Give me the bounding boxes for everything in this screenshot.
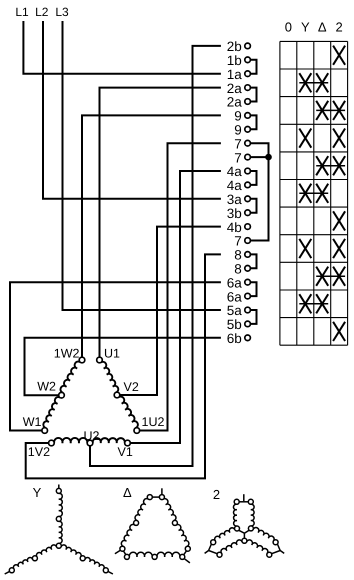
terminal 4b (row 14) [227,220,251,235]
contact row 5 closed in Δ+2 [316,156,345,175]
diagram D node top-right [159,495,164,500]
svg-text:5a: 5a [227,303,243,318]
diagram 2 coil loop-left [233,504,237,526]
svg-text:5b: 5b [227,317,242,332]
label 1U2 [142,415,165,429]
link terminals 9-9 [250,115,256,129]
terminal 8 (row 17) [234,262,250,277]
table header 2 [335,19,342,34]
svg-text:6b: 6b [227,331,242,346]
label W2 [37,380,56,394]
terminal 1a (row 3) [227,67,251,82]
terminal 6b (row 22) [227,331,251,346]
svg-text:7: 7 [234,234,242,249]
diagram 2 coil left-upper [215,528,235,541]
diagram 2 node right-lower-end [267,552,272,557]
node V2 [114,392,120,398]
diagram 2 label [213,487,220,502]
diagram D coil bottom-left [129,552,152,557]
svg-text:1W2: 1W2 [54,347,80,361]
terminal 2a (row 4) [227,81,251,96]
supply label L3 [55,5,69,19]
diagram D node bottom-mid [152,554,157,559]
label 1V2 [28,445,50,459]
terminal 2a (row 5) [227,95,251,110]
diagram D top link [152,496,159,498]
diagram 2 join right [272,544,281,554]
diagram Y node right end [103,568,108,573]
wire terminal 7 to node 1U2 [140,143,221,430]
node U2 [87,440,93,446]
diagram Y right stub [108,571,113,574]
diagram D stub bottom-right [184,559,190,563]
contact row 6 closed in Y+Δ [299,184,328,203]
contact row 10 closed in Y+Δ [299,294,328,313]
diagram D label [123,485,132,500]
diagram Y coil leftnode-leftend [13,557,32,569]
node 1U2 [134,428,140,434]
winding coil V2-1U2 [118,397,138,428]
terminal 8 (row 16) [234,248,250,263]
contact row 7 closed in 2 [333,211,345,230]
contact row 4 closed in Y+2 [299,129,345,148]
link terminals 6a-6a [250,282,256,296]
node V1 [125,440,131,446]
diagram D coil bottom-right [157,552,180,557]
link terminals 1b-1a [250,60,256,74]
diagram 2 node left-lower-end [217,552,222,557]
svg-text:6a: 6a [227,275,243,290]
diagram 2 node left-upper-end [211,540,216,545]
wire terminal 2a to node U1 [100,88,221,358]
diagram D node left-end [120,546,125,551]
svg-text:U2: U2 [84,429,100,443]
diagram D coil left-lower [121,524,135,546]
diagram 2 node loop-bottom-right [248,526,253,531]
svg-text:Y: Y [301,19,310,34]
svg-text:4a: 4a [227,164,243,179]
diagram D node left-mid [134,520,139,525]
svg-text:8: 8 [234,262,242,277]
diagram Y label [33,485,42,500]
contact row 11 closed in 2 [333,322,345,341]
terminal 5a (row 20) [227,303,251,318]
svg-text:8: 8 [234,248,242,263]
label V2 [124,380,139,394]
svg-text:Δ: Δ [318,19,327,34]
terminal 3a (row 12) [227,192,251,207]
svg-text:2: 2 [335,19,342,34]
diagram D node right-mid [172,520,177,525]
diagram 2 junction lines [239,530,249,538]
svg-text:2a: 2a [227,95,243,110]
contact row 2 closed in Y+Δ [299,73,328,92]
link terminals 2a-2a [250,88,256,102]
svg-text:W2: W2 [37,380,56,394]
diagram 2 node right-upper-end [273,540,278,545]
supply label L2 [35,5,49,19]
svg-text:9: 9 [234,123,242,138]
supply label L1 [15,5,29,19]
diagram Y node right node [80,556,85,561]
diagram Y coil center-leftnode [36,545,56,557]
label U1 [104,347,120,361]
table header Y [301,19,310,34]
diagram D coil left-upper [135,499,149,521]
terminal 7 (row 8) [234,136,250,151]
diagram 2 coil right-upper [253,528,274,541]
link terminals 7-7-7 [250,143,268,240]
label 1W2 [54,347,80,361]
terminal 6a (row 18) [227,275,251,290]
wire L3 to terminal 5a [63,21,221,310]
contact row 3 closed in Δ+2 [316,101,345,120]
svg-text:9: 9 [234,109,242,124]
diagram D coil right-upper [163,499,176,521]
diagram D node bottom-left [124,554,129,559]
label W1 [23,415,42,429]
table header Δ [318,19,327,34]
link terminals 8-8 [250,254,256,268]
svg-text:1V2: 1V2 [28,445,50,459]
diagram 2 stub right [280,551,284,554]
node 1V2 [49,440,55,446]
svg-text:Y: Y [33,485,42,500]
diagram 2 node loop-bottom-left [235,526,240,531]
svg-text:2: 2 [213,487,220,502]
diagram Y left stub [5,571,10,574]
contact row 9 closed in Δ+2 [316,267,345,286]
svg-text:1b: 1b [227,53,242,68]
diagram 2 coil left-lower [221,540,242,554]
diagram 2 top stub [243,494,245,501]
node W1 [42,428,48,434]
svg-text:Δ: Δ [123,485,132,500]
svg-text:2a: 2a [227,81,243,96]
contact row 1 closed in 2 [333,46,345,65]
svg-text:3b: 3b [227,206,242,221]
svg-text:6a: 6a [227,289,243,304]
diagram D coil right-lower [176,524,189,546]
terminal 9 (row 6) [234,109,250,124]
diagram 2 node top-left [234,499,239,504]
wire terminal 8 to node 1V2 [26,254,221,478]
switch-position table grid [280,41,348,345]
diagram D node right-end [185,546,190,551]
diagram D stub bottom-left [115,550,121,554]
wire L2 to terminal 3a [43,21,221,199]
contact row 8 closed in Y+2 [299,239,345,258]
diagram D join bottom-left [124,551,126,555]
diagram Y node left node [32,556,37,561]
svg-text:4b: 4b [227,220,242,235]
diagram D top stub [161,488,163,494]
terminal 5b (row 21) [227,317,251,332]
winding coil 1V2-U2 [54,438,87,443]
svg-text:U1: U1 [104,347,120,361]
diagram 2 stub left [205,551,209,554]
label U2 [84,429,100,443]
terminal 6a (row 19) [227,289,251,304]
svg-text:1a: 1a [227,67,243,82]
wire terminal 6b to node W2 [25,338,221,395]
wire L1 to terminal 1a [23,21,221,74]
label V1 [118,445,133,459]
wire terminal 4b to node V2 [120,227,221,395]
svg-text:W1: W1 [23,415,42,429]
wire terminal 9 to node 1W2 [82,115,221,357]
diagram 2 coil loop-right [251,504,254,526]
terminal 7 (row 15) [234,234,250,249]
diagram 2 node star-point [242,538,247,543]
svg-text:L2: L2 [35,5,49,19]
terminal 1b (row 2) [227,53,251,68]
diagram D join bottom-right [184,551,187,555]
link terminals 5a-5b [250,310,256,324]
node U1 [97,357,103,363]
table header 0 [285,19,292,34]
diagram Y top stub [58,485,60,489]
diagram Y node left end [9,568,14,573]
winding coil U1-V2 [101,362,119,393]
svg-text:4a: 4a [227,178,243,193]
svg-text:7: 7 [234,150,242,165]
terminal 9 (row 7) [234,123,250,138]
svg-text:2b: 2b [227,39,242,54]
diagram Y coil top-mid [59,493,62,516]
winding coil U2-V1 [93,438,125,443]
diagram Y coil mid-center [59,521,62,543]
junction net 7 [265,154,272,161]
winding coil 1W2-W2 [60,362,80,393]
diagram D node bottom-right [180,554,185,559]
diagram 2 node top-right [248,499,253,504]
wire terminal 6a to node W1 [10,282,221,430]
wire terminal 4a to node V1 [130,171,221,443]
winding coil W2-W1 [43,397,60,428]
terminal 7 (row 9) [234,150,250,165]
svg-text:V2: V2 [124,380,139,394]
svg-text:7: 7 [234,136,242,151]
svg-text:1U2: 1U2 [142,415,165,429]
terminal 4a (row 10) [227,164,251,179]
svg-text:L3: L3 [55,5,69,19]
link terminals 3a-3b [250,199,256,213]
svg-text:L1: L1 [15,5,29,19]
terminal 2b (row 1) [227,39,251,54]
diagram Y node mid [56,516,61,521]
svg-text:V1: V1 [118,445,133,459]
diagram Y node center [56,543,61,548]
diagram Y node top [56,488,61,493]
diagram Y coil center-rightnode [61,545,81,557]
diagram 2 join left [209,544,218,554]
diagram Y coil rightnode-rightend [85,557,104,569]
svg-text:0: 0 [285,19,292,34]
diagram 2 coil right-lower [247,540,268,554]
svg-text:3a: 3a [227,192,243,207]
wire terminal 2b to node U2 [90,46,221,466]
node 1W2 [79,357,85,363]
diagram 2 top link [239,501,248,503]
node W2 [59,392,65,398]
diagram D node top-left [147,495,152,500]
link terminals 4a-4a [250,171,256,185]
terminal 3b (row 13) [227,206,251,221]
terminal 4a (row 11) [227,178,251,193]
